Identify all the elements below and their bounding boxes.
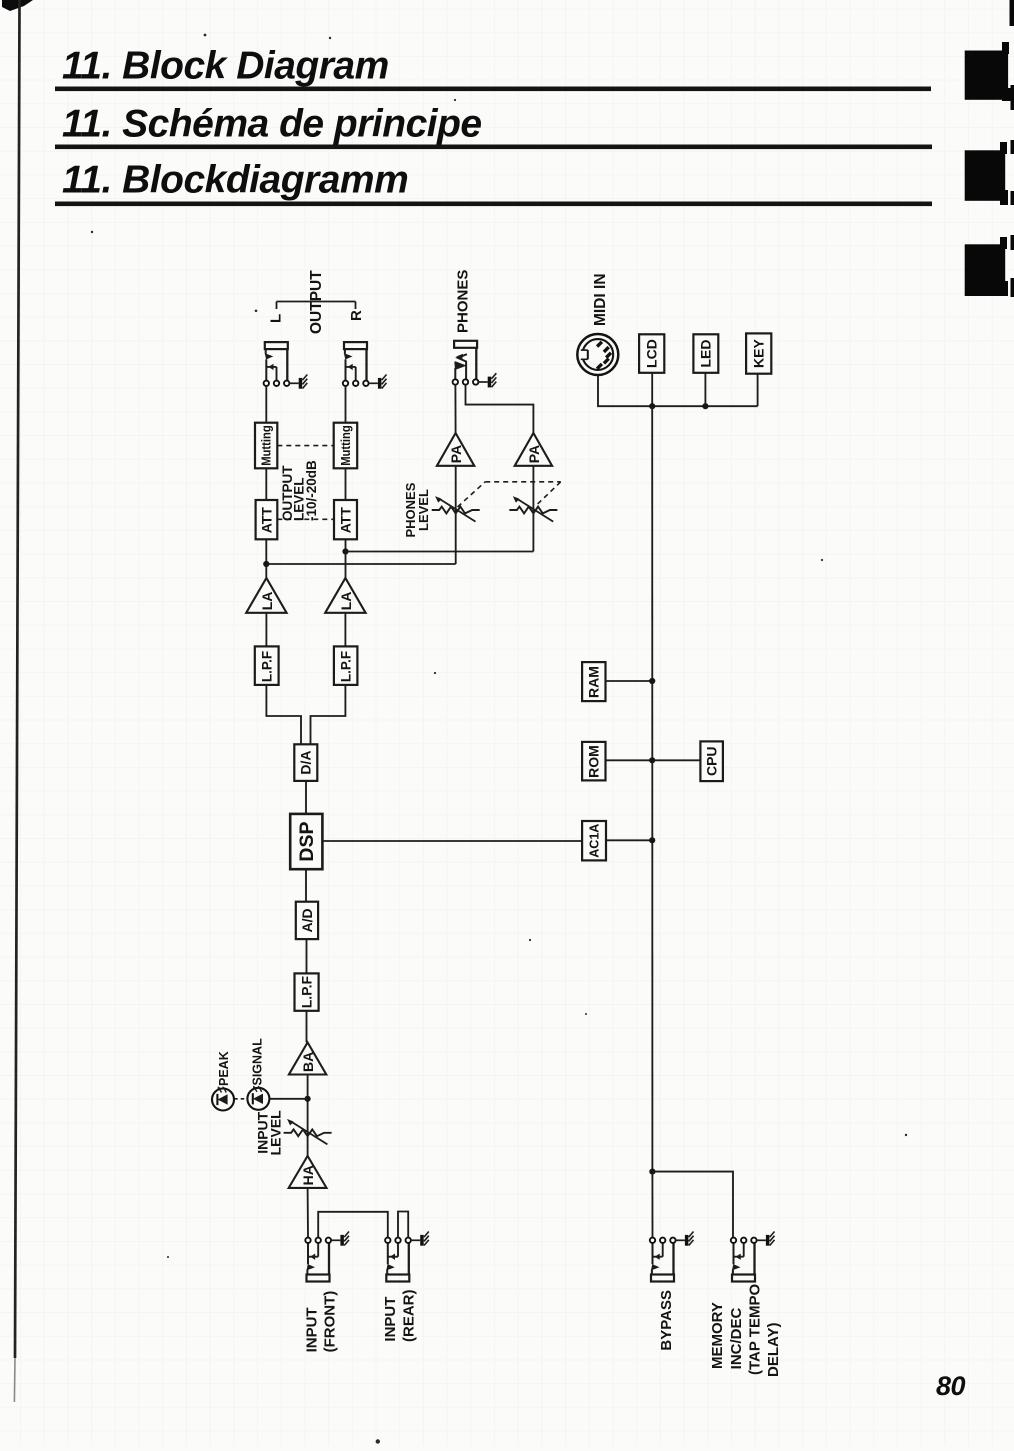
block A/D [296, 902, 318, 939]
wire LA L to LPF L [265, 613, 267, 647]
label INPUT LEVEL [254, 1110, 283, 1156]
svg-text:LED: LED [698, 340, 714, 368]
wire A/D to LPF [306, 939, 308, 973]
wire D/A to DSP [305, 781, 307, 814]
wire LPF to BA [306, 1011, 308, 1043]
svg-text:D/A: D/A [298, 751, 314, 775]
wire FRONT switch to INPUT REAR jack [318, 1212, 388, 1238]
wire OUTPUT L jack to Mutting L [265, 386, 267, 423]
wire OUTPUT R jack to Mutting R [345, 386, 347, 423]
svg-text:L.P.F: L.P.F [338, 651, 353, 682]
ground at BYPASS jack [676, 1232, 694, 1246]
wire LED drop [704, 373, 706, 406]
block L.P.F input [295, 973, 319, 1010]
svg-text:11. Blockdiagramm: 11. Blockdiagramm [62, 159, 408, 202]
svg-text:LEVEL: LEVEL [267, 1110, 283, 1156]
wire Mutting L to ATT L [265, 468, 267, 500]
block ATT R [334, 500, 357, 539]
wire ROM to CPU across bus [606, 759, 701, 761]
ground at MEMORY jack [757, 1232, 775, 1246]
svg-text:80: 80 [936, 1371, 966, 1401]
svg-text:(TAP TEMPO: (TAP TEMPO [747, 1284, 764, 1375]
index tab 1 [965, 0, 1014, 110]
wire junction to MEMORY jack [652, 1172, 733, 1238]
svg-text:LA: LA [259, 592, 275, 611]
block RAM [582, 662, 605, 701]
svg-text:ATT: ATT [337, 507, 353, 534]
node signal tap [305, 1096, 311, 1102]
potentiometer PHONES LEVEL R [509, 496, 557, 521]
dashed gang pots link [458, 482, 561, 507]
jack BYPASS [650, 1238, 676, 1282]
label MEMORY INC/DEC (TAP TEMPO DELAY) [709, 1284, 782, 1377]
op-amp LA L [246, 578, 286, 613]
wire BA to HA through input level pot [307, 1075, 309, 1156]
block L.P.F L [255, 646, 279, 685]
label OUTPUT with bracket [277, 270, 356, 334]
page left edge scan line [2, 0, 33, 11]
block L.P.F R [334, 646, 358, 685]
potentiometer PHONES LEVEL L [432, 496, 480, 521]
svg-text:PEAK: PEAK [217, 1051, 231, 1086]
wire MIDI DIN to control bus [598, 376, 758, 407]
LED PEAK [212, 1086, 234, 1110]
svg-text:INPUT: INPUT [303, 1307, 320, 1352]
svg-text:Mutting: Mutting [260, 425, 274, 466]
block CPU [700, 741, 723, 781]
node RAM-bus [649, 678, 655, 684]
index tab 2 [965, 140, 1014, 205]
svg-text:SIGNAL: SIGNAL [251, 1038, 265, 1086]
label INPUT (REAR) [382, 1290, 417, 1343]
ground at OUTPUT L jack [290, 375, 308, 389]
block DSP [290, 814, 322, 869]
ground at INPUT REAR jack [411, 1232, 429, 1246]
svg-text:BYPASS: BYPASS [658, 1290, 675, 1351]
svg-text:HA: HA [300, 1165, 316, 1185]
node L phones tap [263, 561, 269, 567]
svg-text:AC1A: AC1A [587, 824, 601, 858]
svg-text:INPUT: INPUT [382, 1297, 399, 1342]
dashed gang ATT L - ATT R [277, 518, 334, 520]
op-amp BA [289, 1042, 326, 1074]
svg-text:MIDI IN: MIDI IN [592, 273, 609, 326]
op-amp PA R [515, 433, 552, 466]
wire Mutting R to ATT R [345, 468, 347, 500]
block KEY [746, 333, 771, 373]
wire tap to SIGNAL led [270, 1098, 308, 1100]
svg-text:PHONES: PHONES [455, 270, 472, 333]
svg-text:Mutting: Mutting [339, 425, 353, 466]
block D/A [294, 744, 317, 781]
svg-text:RAM: RAM [586, 666, 602, 698]
wire ATT L to LA L amp [265, 539, 267, 578]
block LED [693, 334, 718, 373]
svg-text:PA: PA [448, 445, 464, 463]
svg-text:KEY: KEY [751, 338, 767, 367]
jack OUTPUT L [264, 342, 290, 386]
label INPUT (FRONT) [303, 1291, 338, 1353]
svg-text:ATT: ATT [258, 507, 274, 534]
svg-text:L.P.F: L.P.F [259, 651, 274, 682]
wire LPF L to D/A [266, 685, 301, 744]
svg-text:BA: BA [300, 1052, 316, 1072]
svg-text:-10/-20dB: -10/-20dB [304, 460, 319, 521]
LED SIGNAL [247, 1086, 269, 1110]
index tab 3 [965, 235, 1014, 297]
jack INPUT FRONT [305, 1238, 331, 1282]
svg-text:L: L [268, 314, 285, 323]
wire R tap to phones level pot R [346, 551, 534, 553]
block AC1A [582, 821, 606, 860]
wire LPF R to D/A [311, 685, 346, 744]
label OUTPUT LEVEL -10/-20dB [280, 460, 319, 521]
block ATT L [256, 500, 278, 539]
wire HA to INPUT FRONT jack [307, 1188, 309, 1238]
block Mutting L [255, 423, 277, 469]
potentiometer INPUT LEVEL [284, 1119, 332, 1145]
ground at INPUT FRONT jack [331, 1232, 349, 1246]
wire KEY drop [757, 374, 759, 407]
node R phones tap [342, 548, 348, 554]
node LCD-bus [649, 403, 655, 409]
wire REAR ring-sleeve loop [398, 1212, 408, 1238]
op-amp LA R [325, 578, 365, 613]
dashed gang Mutting L - Mutting R [277, 445, 333, 447]
svg-text:DSP: DSP [296, 821, 318, 861]
op-amp HA [289, 1156, 327, 1188]
svg-text:PA: PA [526, 445, 542, 463]
jack MEMORY [731, 1238, 757, 1282]
node bypass junction [649, 1169, 655, 1175]
MIDI IN DIN connector [577, 334, 618, 375]
svg-text:11. Schéma de principe: 11. Schéma de principe [62, 103, 482, 146]
node ROM-bus [649, 757, 655, 763]
wire main control bus vertical [651, 406, 653, 1171]
svg-text:ROM: ROM [586, 745, 602, 778]
op-amp PA L [437, 433, 474, 466]
svg-text:R: R [348, 310, 365, 321]
jack PHONES [453, 341, 479, 385]
ground at OUTPUT R jack [369, 375, 387, 389]
svg-text:(REAR): (REAR) [400, 1290, 417, 1343]
svg-text:LA: LA [338, 592, 354, 611]
wire DSP to AC1A [322, 840, 582, 842]
svg-text:(FRONT): (FRONT) [322, 1291, 339, 1353]
wire PHONES jack tip to PA L [454, 385, 456, 433]
scan specks [91, 34, 907, 1444]
wire PHONES jack ring to PA R [466, 385, 534, 433]
svg-text:INC/DEC: INC/DEC [728, 1307, 745, 1369]
wire LA R to LPF R [344, 613, 346, 647]
block Mutting R [334, 423, 358, 469]
block LCD [639, 334, 664, 373]
svg-text:11. Block Diagram: 11. Block Diagram [62, 45, 389, 88]
svg-text:LCD: LCD [644, 339, 660, 368]
wire DSP to A/D [305, 869, 307, 902]
wire LCD drop [651, 373, 653, 406]
label PHONES LEVEL [403, 482, 431, 537]
node AC1A-bus [649, 837, 655, 843]
svg-text:DELAY): DELAY) [765, 1323, 782, 1377]
wire bus to BYPASS jack [651, 1172, 653, 1238]
wire RAM to bus [606, 680, 653, 682]
node LED-bus [702, 403, 708, 409]
wire L tap to phones level pot L [266, 563, 455, 565]
svg-text:OUTPUT: OUTPUT [308, 270, 325, 334]
wire ATT R to LA R amp [345, 539, 347, 578]
svg-text:CPU: CPU [704, 746, 720, 776]
ground at PHONES jack [479, 373, 497, 387]
wire AC1A to bus [606, 839, 652, 841]
svg-text:A/D: A/D [299, 908, 315, 932]
jack INPUT REAR [385, 1238, 411, 1282]
svg-text:MEMORY: MEMORY [709, 1302, 726, 1369]
dashed wire SIGNAL led to PEAK led [234, 1098, 247, 1100]
svg-text:L.P.F: L.P.F [299, 976, 314, 1008]
svg-text:LEVEL: LEVEL [416, 489, 431, 531]
jack OUTPUT R [343, 342, 369, 386]
block ROM [582, 742, 605, 781]
